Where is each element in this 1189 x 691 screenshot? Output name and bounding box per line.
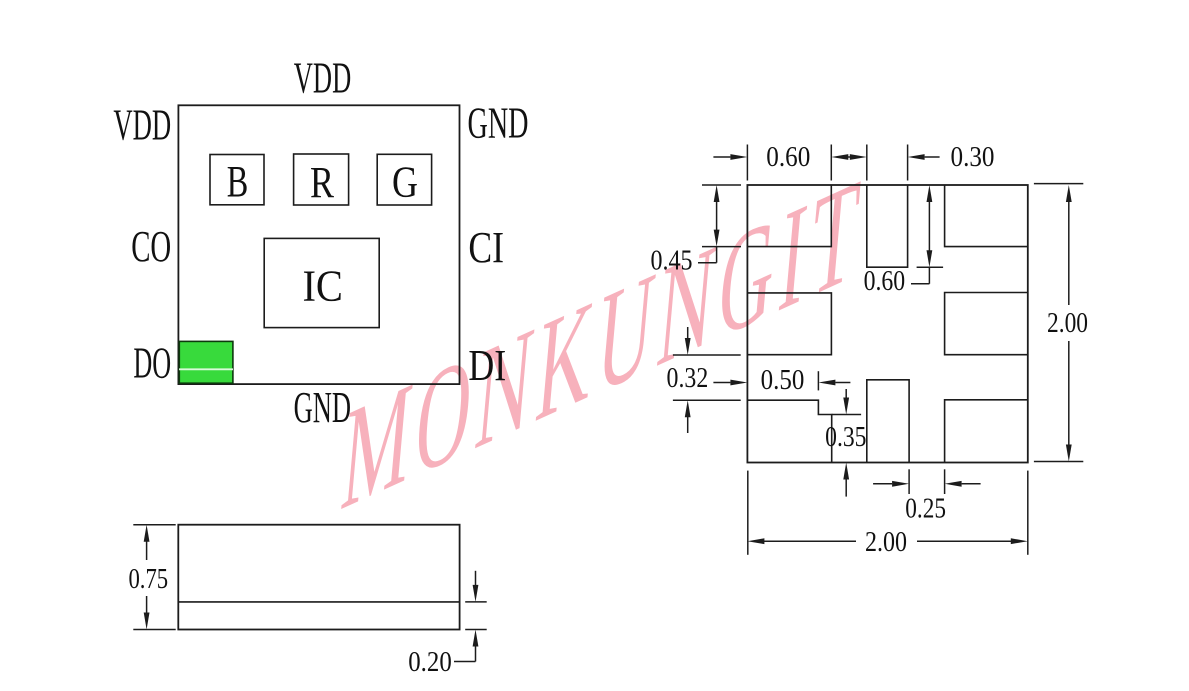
dim 0.45 leader	[698, 262, 717, 264]
dim 0.30 right arrow	[908, 154, 925, 160]
svg-text:2.00: 2.00	[1047, 307, 1088, 339]
svg-text:0.45: 0.45	[651, 245, 693, 277]
svg-text:0.30: 0.30	[951, 141, 995, 173]
dim 0.50 left arrow	[730, 380, 747, 386]
side view outline	[178, 525, 459, 630]
side view pad line	[178, 601, 459, 603]
svg-text:R: R	[310, 158, 335, 207]
land pattern outline	[747, 185, 1027, 463]
dim 0.60 notch line and arrows	[927, 185, 933, 202]
pad top-left	[747, 185, 831, 247]
svg-text:0.20: 0.20	[408, 646, 452, 678]
svg-text:GND: GND	[468, 98, 529, 147]
dim 0.45 extension pad bottom	[702, 246, 741, 248]
IC box	[264, 238, 379, 327]
package top view outline	[178, 105, 459, 384]
svg-text:DI: DI	[468, 341, 506, 390]
dim 0.75 extension top	[133, 524, 175, 526]
dim 2.00 right extension bottom	[1034, 461, 1083, 463]
dim 2.00 right extension top	[1034, 183, 1083, 185]
dim 0.60 notch leader	[928, 267, 930, 284]
svg-text:IC: IC	[302, 262, 343, 311]
dim 0.35 top arrow	[845, 389, 847, 398]
LED chip G box	[377, 154, 431, 205]
svg-text:0.32: 0.32	[667, 362, 709, 394]
dim 0.20 arrows	[475, 571, 477, 585]
dim 0.75 extension bottom	[133, 629, 175, 631]
dim 0.60 notch tick	[917, 266, 944, 268]
pin 1 green pad DO	[179, 341, 233, 383]
dim 0.32 extension top	[673, 354, 741, 356]
svg-text:0.60: 0.60	[766, 141, 810, 173]
pad top-middle notch	[867, 185, 908, 267]
dim 0.50 right arrow	[818, 380, 835, 386]
dim 0.50 extension line	[817, 371, 819, 390]
svg-text:DO: DO	[133, 339, 171, 388]
svg-text:B: B	[227, 157, 249, 206]
dim 0.60 top left arrow	[730, 154, 747, 160]
svg-text:0.35: 0.35	[825, 421, 866, 453]
dim 0.35 extension line	[832, 414, 861, 416]
svg-text:0.60: 0.60	[864, 265, 906, 297]
dim 0.32 arrows	[687, 327, 689, 340]
svg-text:G: G	[392, 158, 418, 207]
dim 0.20 extension mid	[465, 601, 487, 603]
dim 0.35 bottom arrow	[843, 463, 849, 480]
svg-text:CI: CI	[468, 223, 504, 272]
dim 2.00 bottom line and arrows	[747, 538, 764, 544]
dim 0.20 leader	[454, 661, 476, 663]
pad bottom-left stepped	[747, 400, 831, 462]
dim 0.25 extension lines	[908, 469, 910, 494]
dim 0.60 top extension lines	[746, 145, 748, 181]
dim 2.00 bottom extension lines	[747, 471, 749, 555]
pad top-right	[945, 185, 1028, 247]
svg-text:GND: GND	[294, 383, 351, 432]
dim 0.32 extension bottom	[673, 399, 741, 401]
svg-text:0.75: 0.75	[128, 563, 168, 595]
svg-text:CO: CO	[131, 222, 171, 271]
pad bottom-right	[945, 400, 1028, 463]
pad left-middle	[747, 293, 831, 355]
svg-text:VDD: VDD	[294, 53, 351, 102]
dim 0.60/0.30 middle arrows	[831, 154, 848, 160]
dim 0.45 extension top edge	[702, 184, 741, 186]
svg-text:VDD: VDD	[113, 101, 171, 150]
dim 0.45 line and arrows	[714, 185, 720, 202]
svg-text:0.50: 0.50	[761, 364, 805, 396]
pad right-middle	[945, 293, 1028, 355]
dim 2.00 right line and arrows	[1066, 185, 1072, 202]
dim 0.25 arrows	[892, 481, 909, 487]
pad bottom-middle	[867, 380, 909, 463]
LED chip R box	[294, 154, 349, 205]
svg-text:2.00: 2.00	[865, 526, 907, 558]
dim 0.75 line and arrows	[146, 539, 148, 560]
dim 0.20 extension bottom	[465, 629, 487, 631]
LED chip B box	[210, 155, 264, 205]
dim 0.30 top extension lines	[866, 145, 868, 181]
svg-text:0.25: 0.25	[905, 493, 946, 525]
